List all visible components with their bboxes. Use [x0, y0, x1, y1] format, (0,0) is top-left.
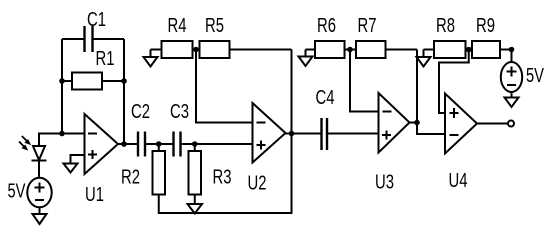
op-amp U4 [445, 94, 477, 154]
ground left of R8 [417, 50, 431, 67]
wire R6/R7 junction to U3 inverting input [350, 50, 379, 112]
node U3 output [414, 120, 420, 126]
wire R4/R5 junction to U2 inverting input [196, 50, 253, 123]
wire R8/R9 junction to U4 noninverting input [439, 50, 469, 114]
resistor R8 [424, 41, 473, 58]
svg-text:U4: U4 [449, 170, 468, 192]
op-amp U2 [253, 103, 286, 163]
node at U1 output [121, 141, 127, 147]
output terminal [508, 121, 514, 127]
wire feedback loop left vertical [61, 39, 63, 134]
capacitor C1 [62, 26, 124, 52]
capacitor C3 [174, 132, 181, 157]
wire diode cathode to 5V source [38, 161, 40, 179]
op-amp U1 [85, 114, 119, 174]
op-amp U3 [379, 93, 410, 153]
wire feedback loop right vertical [123, 39, 125, 144]
ground below left 5V source [33, 214, 47, 224]
node R9 right [509, 47, 515, 53]
wire U2 output to C4 [286, 133, 322, 135]
capacitor C4 [322, 118, 328, 150]
svg-text:C4: C4 [316, 87, 335, 109]
ground below right 5V source [505, 98, 519, 108]
svg-text:5V: 5V [526, 65, 544, 87]
wire U1 output to C2 [118, 143, 138, 145]
svg-text:5V: 5V [8, 181, 26, 203]
resistor R4 [151, 41, 200, 58]
wire R7 to U3 output (feedback vertical) [416, 50, 418, 123]
node R8/R9 junction [466, 47, 472, 53]
ground at U1 noninverting input [64, 164, 78, 173]
node C2/R2 junction [156, 141, 162, 147]
node C3/R3 junction [192, 141, 198, 147]
wire U3 output to U4 inverting input [410, 123, 446, 135]
svg-text:U2: U2 [248, 173, 267, 195]
svg-text:U1: U1 [85, 184, 104, 206]
svg-text:C1: C1 [87, 9, 106, 31]
svg-text:R6: R6 [317, 15, 336, 37]
svg-text:R4: R4 [168, 15, 187, 37]
wire source to ground [39, 207, 41, 214]
wire R9 to 5V source [511, 50, 513, 63]
node at U1 inverting input [59, 131, 65, 137]
voltage source 5V (right) [501, 62, 522, 92]
resistor R6 [306, 41, 357, 58]
wire C3 to U2 noninverting input [181, 143, 253, 145]
wire C4 to U3 noninverting input [328, 133, 379, 135]
resistor R3 [189, 144, 202, 204]
node U2 output [289, 131, 295, 137]
wire U1 noninverting input [71, 155, 85, 164]
voltage source 5V (left) [27, 178, 51, 208]
svg-text:R9: R9 [476, 15, 495, 37]
svg-text:C2: C2 [131, 101, 150, 123]
wire U4 output [477, 123, 508, 125]
node R4/R5 junction [193, 47, 199, 53]
resistor R1 [62, 73, 124, 90]
svg-text:U3: U3 [375, 172, 394, 194]
ground below R3 [188, 204, 203, 214]
wire R2 bottom rail to U2 output [159, 134, 292, 214]
wire R5 to U2 output (feedback vertical) [291, 50, 293, 134]
resistor R7 [356, 41, 417, 58]
wire C2 to C3 [145, 143, 174, 145]
svg-text:R5: R5 [205, 15, 224, 37]
ground left of R6 [299, 50, 313, 67]
svg-text:R7: R7 [358, 15, 377, 37]
node R1 left [59, 78, 65, 84]
svg-text:R2: R2 [121, 167, 140, 189]
svg-text:C3: C3 [170, 101, 189, 123]
node R1 right [121, 78, 127, 84]
wire source to ground [511, 92, 513, 98]
node R6/R7 junction [347, 47, 353, 53]
resistor R2 [153, 144, 166, 195]
photodiode D1 [19, 136, 47, 161]
ground left of R4 [144, 50, 158, 67]
svg-text:R1: R1 [96, 48, 115, 70]
resistor R5 [200, 41, 292, 58]
resistor R9 [472, 41, 512, 58]
svg-text:R3: R3 [213, 167, 232, 189]
wire photodiode anode to U1 inverting input [39, 134, 85, 147]
svg-text:R8: R8 [436, 15, 455, 37]
capacitor C2 [138, 132, 145, 157]
